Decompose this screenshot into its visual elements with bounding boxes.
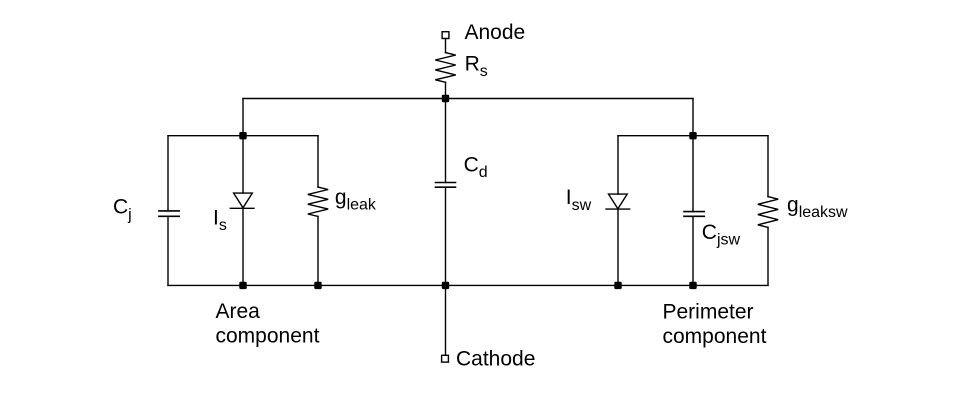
wire Isw upper [617, 136, 619, 194]
svg-text:component: component [663, 325, 767, 348]
capacitor Cj [159, 211, 179, 216]
anode terminal [442, 32, 449, 39]
diode Is [234, 193, 253, 208]
wire gleaksw lower [767, 227, 769, 285]
wire right top rail [618, 135, 768, 137]
resistor Rs [435, 53, 455, 83]
wire Cd upper [445, 99, 447, 183]
svg-text:Perimeter: Perimeter [663, 300, 754, 323]
wire Isw lower [617, 209, 619, 285]
junction gleak bottom [314, 282, 321, 289]
wire gleaksw upper [767, 136, 769, 197]
wire anode to Rs [445, 39, 447, 53]
wire cathode drop [445, 285, 447, 355]
svg-text:Anode: Anode [465, 21, 526, 44]
resistor gleak [308, 187, 328, 216]
wire gleak upper [317, 136, 319, 187]
junction right rail top [689, 132, 696, 139]
wire Cjsw lower [692, 216, 694, 285]
wire left top rail [168, 135, 318, 137]
wire Is lower [242, 208, 244, 285]
cathode terminal [442, 355, 449, 362]
wire Rs to top node [445, 82, 447, 98]
junction Isw bottom [614, 282, 621, 289]
wire Is upper [242, 136, 244, 193]
diode Isw [609, 194, 628, 209]
junction top node [442, 95, 449, 102]
wire Cj upper [167, 136, 169, 211]
wire Cjsw upper [692, 136, 694, 212]
wire gleak lower [317, 216, 319, 285]
wire right drop [692, 99, 694, 136]
wire top horizontal bus [243, 98, 693, 100]
svg-text:component: component [216, 325, 320, 348]
junction Is bottom [239, 282, 246, 289]
wire bottom rail [168, 284, 768, 286]
junction left rail top [239, 132, 246, 139]
wire Cj lower [167, 216, 169, 285]
junction cathode node [442, 282, 449, 289]
wire left drop [242, 99, 244, 136]
wire Cd lower [445, 187, 447, 285]
resistor gleaksw [758, 197, 778, 228]
svg-text:Area: Area [216, 300, 261, 323]
svg-text:Cathode: Cathode [456, 347, 535, 370]
capacitor Cjsw [684, 212, 704, 217]
junction Cjsw bottom [689, 282, 696, 289]
capacitor Cd [436, 183, 456, 188]
